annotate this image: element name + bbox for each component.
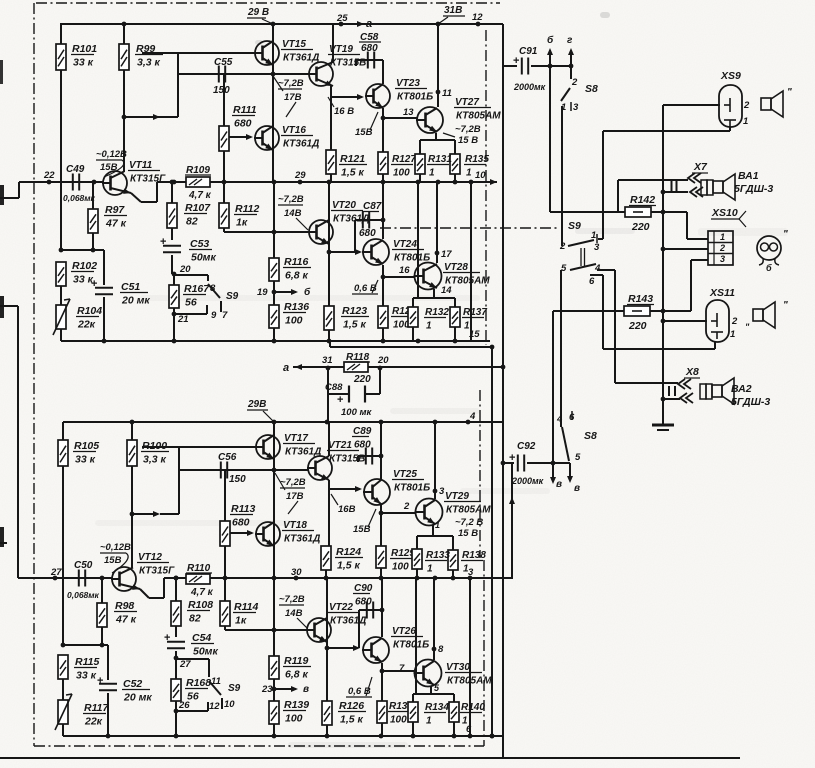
svg-text:S9: S9 [226, 291, 239, 302]
svg-text:VT28: VT28 [444, 262, 468, 273]
svg-text:1к: 1к [235, 615, 247, 627]
svg-text:VT11: VT11 [129, 160, 153, 171]
svg-text:VT24: VT24 [393, 239, 417, 250]
svg-text:VT17: VT17 [284, 433, 308, 444]
svg-text:29В: 29В [247, 399, 266, 410]
svg-text:VT12: VT12 [138, 552, 162, 563]
svg-text:R139: R139 [284, 699, 309, 711]
svg-text:R115: R115 [75, 656, 99, 668]
svg-text:~7,2В: ~7,2В [455, 124, 481, 135]
svg-text:20: 20 [179, 264, 191, 275]
svg-text:11: 11 [442, 88, 452, 99]
svg-text:12: 12 [209, 701, 220, 712]
svg-text:R167: R167 [184, 283, 210, 295]
svg-text:2: 2 [571, 77, 578, 88]
svg-text:1: 1 [427, 564, 433, 575]
svg-text:R140: R140 [461, 702, 485, 713]
svg-text:150: 150 [213, 85, 230, 96]
svg-text:3: 3 [594, 242, 600, 253]
svg-text:КТ805АМ: КТ805АМ [456, 111, 501, 122]
svg-text:+: + [337, 394, 343, 406]
svg-text:31: 31 [322, 355, 333, 366]
svg-text:1: 1 [426, 321, 432, 332]
svg-text:R111: R111 [233, 104, 257, 116]
svg-text:0,068мк: 0,068мк [67, 590, 100, 600]
svg-text:680: 680 [359, 228, 376, 239]
svg-text:31В: 31В [444, 5, 462, 16]
svg-text:~0,12В: ~0,12В [100, 542, 131, 553]
svg-text:14В: 14В [285, 608, 303, 619]
svg-text:100: 100 [390, 715, 407, 726]
svg-text:33 к: 33 к [76, 670, 97, 682]
svg-text:29 В: 29 В [247, 7, 269, 18]
svg-text:20 мк: 20 мк [123, 692, 152, 704]
svg-text:КТ361Д: КТ361Д [283, 139, 319, 150]
svg-text:25: 25 [336, 13, 348, 24]
svg-text:5ГДШ-3: 5ГДШ-3 [731, 396, 770, 408]
svg-text:1: 1 [720, 232, 725, 242]
svg-text:C56: C56 [218, 452, 237, 463]
svg-text:3: 3 [573, 102, 579, 113]
svg-text:VT30: VT30 [446, 662, 470, 673]
svg-text:S8: S8 [585, 83, 598, 95]
svg-text:R124: R124 [336, 546, 361, 558]
svg-text:VT21: VT21 [328, 440, 352, 451]
svg-text:КТ801Б: КТ801Б [394, 253, 430, 264]
svg-text:12: 12 [472, 12, 483, 23]
svg-text:8: 8 [210, 283, 216, 294]
svg-text:R114: R114 [234, 601, 258, 613]
svg-text:S8: S8 [584, 430, 597, 442]
svg-text:4: 4 [594, 263, 601, 274]
svg-text:КТ315Г: КТ315Г [139, 566, 175, 577]
svg-text:+: + [509, 452, 515, 464]
svg-text:1: 1 [429, 168, 435, 179]
svg-text:1: 1 [466, 168, 472, 179]
svg-text:15 В: 15 В [458, 528, 478, 539]
svg-text:C54: C54 [192, 632, 211, 644]
svg-text:0,068мк: 0,068мк [63, 193, 96, 203]
svg-text:VT27: VT27 [455, 97, 479, 108]
svg-text:X7: X7 [693, 161, 708, 173]
svg-text:C51: C51 [121, 281, 140, 293]
svg-text:КТ805АМ: КТ805АМ [445, 276, 490, 287]
svg-text:~7,2В: ~7,2В [278, 194, 304, 205]
svg-text:б: б [766, 263, 772, 273]
svg-text:1: 1 [730, 329, 735, 340]
svg-text:1,5 к: 1,5 к [341, 167, 365, 179]
svg-text:4: 4 [469, 411, 476, 422]
svg-text:б: б [304, 286, 311, 298]
svg-text:C92: C92 [517, 441, 536, 452]
svg-text:2: 2 [731, 316, 738, 327]
svg-text:11: 11 [211, 676, 221, 687]
svg-text:150: 150 [229, 474, 246, 485]
svg-text:1к: 1к [236, 217, 248, 229]
svg-text:29: 29 [294, 170, 306, 181]
svg-text:": " [783, 300, 788, 311]
svg-text:C87: C87 [363, 201, 382, 212]
svg-text:1,5 к: 1,5 к [340, 714, 364, 726]
svg-text:R105: R105 [74, 440, 99, 452]
svg-text:VT15: VT15 [282, 39, 306, 50]
svg-text:VT26: VT26 [392, 626, 416, 637]
svg-text:R123: R123 [342, 305, 367, 317]
svg-text:VT16: VT16 [282, 125, 306, 136]
svg-text:100 мк: 100 мк [341, 407, 373, 418]
svg-text:4,7 к: 4,7 к [188, 190, 212, 201]
svg-text:C88: C88 [325, 382, 343, 393]
svg-text:C50: C50 [74, 560, 93, 571]
svg-text:C90: C90 [354, 583, 373, 594]
svg-text:15В: 15В [353, 524, 371, 535]
svg-text:R134: R134 [425, 702, 449, 713]
svg-text:16 В: 16 В [334, 106, 354, 117]
svg-text:7: 7 [222, 310, 228, 321]
svg-text:13: 13 [403, 107, 414, 118]
svg-text:VT25: VT25 [393, 469, 417, 480]
svg-text:ВА2: ВА2 [731, 383, 752, 395]
svg-text:R136: R136 [284, 301, 309, 313]
svg-text:17В: 17В [284, 92, 302, 103]
svg-text:21: 21 [177, 314, 189, 325]
svg-text:R108: R108 [188, 599, 213, 611]
svg-text:14В: 14В [284, 208, 302, 219]
svg-text:6,8 к: 6,8 к [285, 270, 309, 282]
svg-text:КТ801Б: КТ801Б [394, 483, 430, 494]
svg-text:1: 1 [561, 102, 566, 113]
svg-text:R98: R98 [115, 600, 134, 612]
svg-text:~7,2В: ~7,2В [279, 594, 305, 605]
svg-text:VT22: VT22 [329, 602, 353, 613]
svg-text:1,5 к: 1,5 к [337, 560, 361, 572]
svg-text:100: 100 [393, 168, 410, 179]
svg-text:1: 1 [464, 321, 470, 332]
svg-text:17В: 17В [286, 491, 304, 502]
svg-text:23: 23 [261, 684, 273, 695]
svg-text:+: + [97, 675, 103, 687]
svg-text:680: 680 [232, 517, 250, 529]
svg-text:R102: R102 [72, 260, 97, 272]
svg-text:C89: C89 [353, 426, 372, 437]
svg-text:ВА1: ВА1 [738, 170, 759, 182]
svg-text:+: + [91, 278, 97, 290]
svg-text:R116: R116 [284, 256, 308, 268]
svg-text:R135: R135 [465, 154, 489, 165]
svg-text:50мк: 50мк [191, 252, 216, 264]
svg-text:": " [787, 87, 792, 98]
svg-text:5: 5 [575, 452, 581, 463]
svg-text:47 к: 47 к [105, 218, 127, 230]
svg-text:КТ361Д: КТ361Д [284, 534, 320, 545]
svg-text:7: 7 [399, 663, 405, 674]
svg-text:33 к: 33 к [73, 57, 94, 69]
svg-text:R133: R133 [426, 550, 450, 561]
svg-text:": " [745, 322, 750, 332]
svg-text:27: 27 [179, 659, 191, 670]
svg-text:R97: R97 [105, 204, 125, 216]
svg-text:82: 82 [189, 613, 201, 625]
svg-text:R113: R113 [231, 503, 255, 515]
svg-text:C52: C52 [123, 678, 142, 690]
svg-text:2: 2 [559, 241, 566, 252]
svg-text:~7,2В: ~7,2В [280, 477, 306, 488]
svg-text:1: 1 [462, 716, 468, 727]
svg-text:220: 220 [631, 221, 650, 233]
svg-text:50мк: 50мк [193, 646, 218, 658]
svg-text:C55: C55 [214, 57, 233, 68]
svg-text:3: 3 [439, 486, 445, 497]
svg-text:16В: 16В [338, 504, 356, 515]
svg-text:б: б [547, 34, 554, 46]
svg-text:15В: 15В [104, 555, 122, 566]
svg-text:220: 220 [628, 320, 647, 332]
svg-text:1: 1 [463, 564, 469, 575]
svg-text:R126: R126 [339, 700, 364, 712]
svg-text:9: 9 [211, 310, 217, 321]
svg-text:R101: R101 [72, 43, 97, 55]
svg-text:15В: 15В [355, 127, 373, 138]
svg-text:R132: R132 [425, 307, 449, 318]
svg-text:10: 10 [224, 699, 235, 710]
svg-text:КТ361Д: КТ361Д [330, 616, 366, 627]
svg-text:100: 100 [392, 562, 409, 573]
svg-text:3,3 к: 3,3 к [137, 57, 161, 69]
svg-text:3: 3 [720, 254, 725, 264]
svg-text:X8: X8 [685, 366, 699, 378]
svg-text:22к: 22к [77, 319, 96, 331]
svg-text:в: в [303, 684, 309, 695]
svg-text:S9: S9 [228, 683, 241, 694]
svg-text:C53: C53 [190, 238, 209, 250]
svg-text:XS9: XS9 [720, 70, 741, 82]
svg-text:S9: S9 [568, 220, 581, 232]
svg-text:VT23: VT23 [396, 78, 420, 89]
svg-text:22к: 22к [84, 716, 103, 728]
svg-text:10: 10 [475, 170, 486, 181]
svg-text:R104: R104 [77, 305, 102, 317]
svg-text:R138: R138 [462, 550, 486, 561]
svg-text:XS11: XS11 [709, 287, 735, 299]
svg-text:VT18: VT18 [283, 520, 307, 531]
svg-text:33 к: 33 к [75, 454, 96, 466]
svg-text:": " [783, 229, 788, 240]
svg-text:680: 680 [355, 597, 372, 608]
svg-text:КТ361Д: КТ361Д [283, 53, 319, 64]
svg-text:a: a [366, 18, 372, 30]
svg-text:4: 4 [556, 414, 563, 425]
svg-text:R143: R143 [628, 293, 653, 305]
svg-text:КТ801Б: КТ801Б [393, 640, 429, 651]
svg-text:г: г [567, 35, 573, 46]
svg-text:6: 6 [589, 276, 595, 287]
svg-text:КТ805АМ: КТ805АМ [447, 676, 492, 687]
svg-text:220: 220 [353, 374, 371, 385]
svg-text:R112: R112 [235, 203, 259, 215]
svg-text:56: 56 [185, 297, 197, 309]
svg-text:6,8 к: 6,8 к [285, 669, 309, 681]
svg-text:14: 14 [441, 285, 452, 296]
svg-text:680: 680 [361, 43, 378, 54]
svg-text:2: 2 [743, 100, 750, 111]
svg-text:100: 100 [285, 315, 303, 327]
svg-text:1: 1 [743, 116, 748, 127]
svg-text:680: 680 [234, 118, 252, 130]
svg-text:в: в [574, 483, 580, 494]
svg-text:+: + [164, 632, 170, 644]
svg-text:2: 2 [719, 243, 725, 253]
svg-text:680: 680 [354, 440, 371, 451]
svg-text:КТ805АМ: КТ805АМ [446, 505, 491, 516]
svg-text:XS10: XS10 [711, 207, 738, 219]
svg-text:2000мк: 2000мк [513, 82, 546, 92]
svg-text:1: 1 [426, 716, 432, 727]
svg-text:a: a [283, 362, 289, 374]
svg-text:1,5 к: 1,5 к [343, 319, 367, 331]
svg-text:2000мк: 2000мк [511, 476, 544, 486]
svg-text:15 В: 15 В [458, 135, 478, 146]
svg-text:4,7 к: 4,7 к [190, 587, 214, 598]
svg-text:19: 19 [257, 287, 268, 298]
svg-text:+: + [160, 236, 166, 248]
svg-text:R117: R117 [84, 702, 109, 714]
svg-text:R119: R119 [284, 655, 308, 667]
svg-text:5ГДШ-3: 5ГДШ-3 [734, 183, 773, 195]
svg-text:30: 30 [291, 567, 302, 578]
svg-text:1: 1 [435, 520, 440, 530]
svg-text:~0,12В: ~0,12В [96, 149, 127, 160]
svg-text:22: 22 [43, 170, 55, 181]
svg-text:56: 56 [187, 691, 199, 703]
svg-text:VT20: VT20 [332, 200, 356, 211]
svg-text:R107: R107 [185, 202, 211, 214]
svg-text:R142: R142 [630, 194, 655, 206]
svg-text:КТ801Б: КТ801Б [397, 92, 433, 103]
svg-text:C91: C91 [519, 46, 538, 57]
svg-text:R127: R127 [392, 154, 416, 165]
svg-text:17: 17 [441, 249, 452, 260]
svg-text:КТ315Г: КТ315Г [130, 174, 166, 185]
svg-text:20: 20 [377, 355, 389, 366]
svg-text:47 к: 47 к [115, 614, 137, 626]
svg-text:100: 100 [285, 713, 303, 725]
svg-text:16: 16 [399, 265, 410, 276]
svg-text:в: в [556, 479, 562, 490]
svg-text:VT29: VT29 [445, 491, 469, 502]
svg-text:8: 8 [438, 644, 444, 655]
svg-text:~7,2В: ~7,2В [278, 78, 304, 89]
svg-text:R137: R137 [463, 307, 487, 318]
svg-text:82: 82 [186, 216, 198, 228]
svg-text:2: 2 [403, 501, 410, 512]
svg-text:3,3 к: 3,3 к [143, 454, 167, 466]
svg-text:~7,2 В: ~7,2 В [455, 517, 483, 528]
svg-text:C49: C49 [66, 164, 85, 175]
svg-text:R168: R168 [186, 677, 211, 689]
svg-text:R131: R131 [428, 154, 452, 165]
svg-text:20 мк: 20 мк [121, 295, 150, 307]
svg-text:R121: R121 [340, 153, 365, 165]
